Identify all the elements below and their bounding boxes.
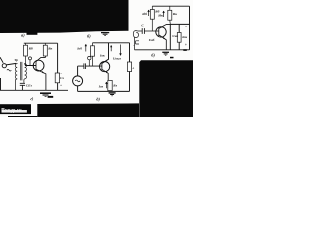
output bracket marks d (136, 41, 139, 44)
right edge wire v (189, 6, 191, 50)
svg-text:Iоэ: Iоэ (98, 85, 104, 89)
black bar near a) (27, 32, 38, 35)
base terminal circle d (88, 56, 91, 59)
transistor VT-d (100, 62, 110, 72)
svg-text:Cэ: Cэ (60, 76, 64, 80)
emitter arrow d (106, 71, 108, 73)
small dash above black block (170, 57, 174, 59)
black block bottom-right (139, 60, 193, 117)
resistor Rk-v (168, 6, 172, 24)
resistor Ce-g (55, 73, 59, 83)
svg-text:Uвб: Uвб (149, 38, 155, 42)
svg-text:Iдб: Iдб (141, 12, 147, 16)
terminal input (2, 64, 6, 68)
resistor Rb-v (150, 6, 154, 31)
transistor VT-g (33, 60, 44, 71)
collector node line v (169, 24, 171, 49)
wire terminal to transformer primary (6, 63, 16, 65)
left border wire (0, 78, 2, 90)
input source squiggle v (133, 31, 138, 50)
collector wire d (102, 43, 108, 64)
svg-text:−: − (60, 72, 62, 76)
ground v (162, 51, 169, 53)
svg-text:CЕз: CЕз (26, 84, 33, 88)
svg-text:б): б) (151, 53, 155, 58)
svg-text:д): д) (96, 97, 100, 102)
transistor VT-g electrodes (36, 56, 46, 90)
black block top-left (0, 0, 129, 33)
current arrow Ioe-d (106, 82, 108, 88)
transistor VT-v electrodes (159, 24, 171, 49)
transistor VT-v (156, 27, 166, 37)
emitter arrow g (42, 71, 44, 73)
wire input diagonal top-left (0, 57, 3, 63)
top rail v (152, 5, 189, 7)
svg-text:Iвб: Iвб (76, 46, 82, 50)
svg-text:Iон: Iон (181, 35, 187, 39)
source leads d (77, 66, 79, 91)
bottom rail g (0, 89, 68, 91)
transformer primary winding (15, 63, 17, 90)
current arrow Ivk-d on collector (111, 45, 112, 51)
base terminal lead d (88, 60, 90, 66)
transformer secondary winding (24, 63, 27, 83)
ground remains of blacked circuit b (101, 32, 109, 34)
resistor Rn-v (177, 33, 181, 43)
svg-text:Входын.: Входын. (1, 108, 23, 114)
svg-text:г): г) (30, 96, 34, 101)
svg-text:Rэ: Rэ (113, 84, 117, 88)
right branch d (129, 43, 131, 92)
base wire g (25, 63, 36, 65)
svg-text:б): б) (87, 33, 91, 38)
base terminal lead (29, 60, 31, 66)
Uvyh arrow d (120, 45, 122, 56)
svg-text:Тр: Тр (14, 58, 18, 62)
svg-text:+: + (60, 83, 62, 87)
black bottom strip (37, 103, 139, 117)
resistor Rk-g (43, 43, 47, 56)
ground g (40, 92, 51, 94)
output top wire v (170, 23, 189, 25)
current arrow Idb (148, 10, 150, 16)
right branch g (57, 43, 59, 90)
current arrow Idk (163, 11, 165, 17)
transformer core (21, 62, 22, 81)
svg-text:Rб: Rб (29, 47, 33, 51)
black caption bar bottom-left (0, 104, 31, 114)
resistor R1-d (91, 43, 95, 66)
capacitor CE3 (20, 83, 25, 90)
paper background (0, 0, 193, 117)
resistor Rn-d (127, 62, 131, 72)
bottom rail v (135, 49, 190, 51)
svg-text:Rк: Rк (48, 47, 52, 51)
current arrow Ivb-d (85, 44, 87, 51)
black bottom edge line (8, 116, 37, 118)
load line Rn-v (178, 24, 180, 49)
bottom rail d (78, 90, 130, 92)
emitter arrow v (163, 37, 165, 39)
svg-text:Rб: Rб (155, 9, 159, 13)
svg-text:Iвк: Iвк (99, 53, 105, 57)
white caption text (2, 110, 27, 113)
svg-text:Iдк: Iдк (157, 13, 163, 17)
ac source d (73, 76, 83, 86)
input capacitor C v (138, 28, 159, 34)
tilde source mark (7, 69, 11, 71)
input capacitor d (78, 63, 86, 69)
svg-text:Rк: Rк (173, 12, 177, 16)
svg-text:Uвых: Uвых (113, 56, 122, 60)
top rail g (24, 42, 58, 44)
svg-text:а): а) (21, 33, 25, 38)
svg-text:Uвк: Uвк (172, 34, 178, 38)
resistor Rb-g (24, 43, 28, 65)
ground d (109, 92, 116, 94)
transistor VT-d electrodes (86, 62, 108, 80)
base terminal circle (29, 57, 32, 60)
top rail d (93, 42, 130, 44)
emitter resistor lead d (109, 90, 111, 93)
junction blob on rail v (183, 49, 187, 51)
emitter resistor Re-d (108, 80, 112, 90)
black dash near g) (48, 96, 54, 98)
